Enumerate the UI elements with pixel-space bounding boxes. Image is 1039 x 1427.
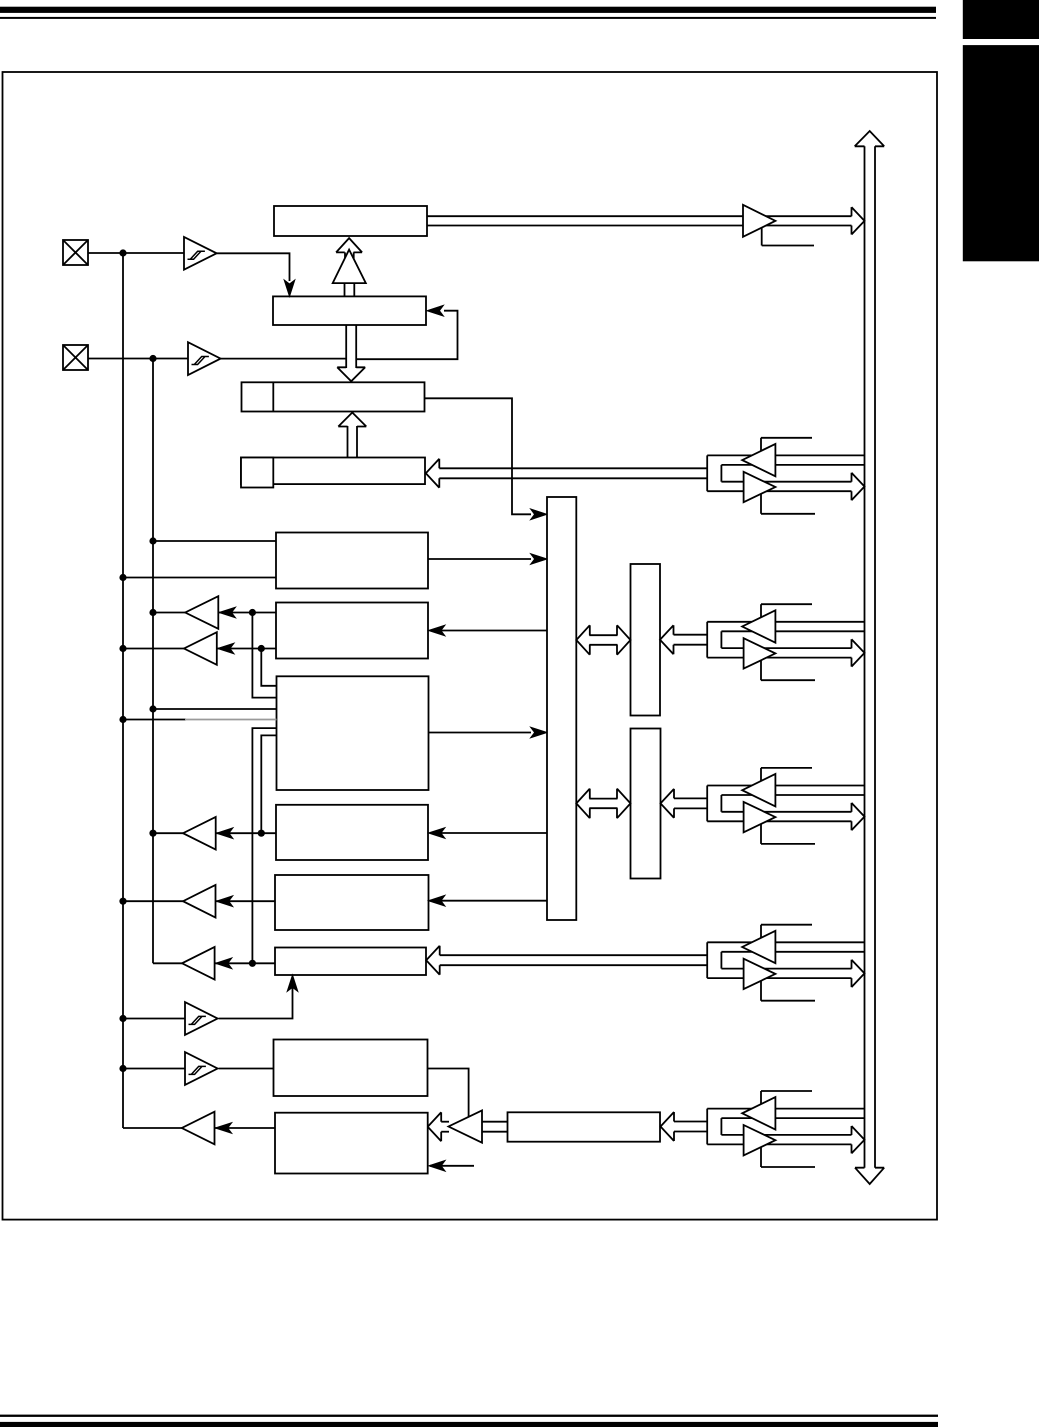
internal bus vertical lines — [864, 146, 866, 1167]
input buffer port P4 (left-pointing) — [742, 931, 775, 963]
wire schmitt F to block10 count input — [219, 977, 293, 1019]
arrow into buffer A — [219, 607, 235, 618]
stub port P3b input-buffer enable — [761, 768, 812, 783]
open arrow port P2 output into internal bus — [852, 473, 865, 500]
block11: watch timer block — [274, 1040, 428, 1097]
wire pin TI0 to schmitt trigger — [88, 252, 184, 254]
open arrow into N1 — [660, 625, 674, 654]
node TI1 junction — [149, 355, 156, 362]
page top rule (thick) — [0, 7, 936, 13]
arrow into block2 top — [284, 280, 295, 296]
node rail A / block5 — [119, 574, 126, 581]
node rail B / buffer A — [149, 609, 156, 616]
figure frame — [3, 72, 938, 1220]
stub port P4 input-buffer enable — [761, 925, 812, 940]
chapter tab lower — [963, 45, 1039, 261]
node rail A / schmitt G — [119, 1065, 126, 1072]
schmitt trigger U2 — [188, 342, 221, 375]
wire port P3b fan-out bracket — [706, 786, 708, 822]
wire block9 output to buffer D — [216, 900, 276, 902]
open arrow into block13 — [661, 1112, 675, 1141]
node rail B / buffer C — [149, 830, 156, 837]
internal bus bottom arrowhead — [855, 1168, 884, 1184]
node branch to block7 — [249, 609, 256, 616]
wire rail B to block5 — [153, 540, 276, 542]
wire selector to block8 — [430, 832, 547, 834]
wire trigger U2 to count-clock stem — [221, 358, 347, 360]
open arrow into block10 — [426, 946, 440, 975]
wire rail A to block5 — [123, 577, 276, 579]
stub P1 output-buffer enable — [762, 227, 814, 246]
open arrow into block4 — [426, 459, 440, 488]
narrow register block N1 — [631, 564, 661, 716]
open arrow block2 into block3 — [345, 325, 347, 368]
wire match-signal stem — [344, 252, 346, 283]
arrow block5 output into selector — [531, 554, 547, 565]
output buffer C (left-pointing) — [183, 817, 216, 850]
wire port P4 fan-out bracket — [706, 942, 708, 978]
wire block8 output to buffer C — [216, 832, 276, 834]
internal bus top arrowhead — [855, 131, 885, 146]
block2: 16-bit timer counter — [273, 296, 426, 325]
page bottom rule (thick) — [0, 1422, 938, 1427]
wire selector to block9 — [430, 900, 547, 902]
wire reset stub into block12 — [430, 1165, 474, 1167]
wire rail A to schmitt G — [123, 1068, 185, 1070]
wire buffer H to rail A end — [123, 1127, 182, 1129]
output buffer port P3b (right-pointing) — [744, 802, 776, 832]
wire port P3b output pair to bus — [721, 811, 851, 813]
node rail A / buffer B — [119, 645, 126, 652]
block13: prescaler (thin) — [508, 1112, 661, 1141]
block6: timer output control register — [276, 603, 428, 659]
arrow up into block10 — [287, 975, 298, 991]
wire rail A to schmitt F — [123, 1018, 185, 1020]
pin TI0 (crossed square) — [63, 240, 88, 265]
block8: compare register — [276, 805, 428, 860]
schmitt trigger U1 — [184, 237, 217, 270]
output buffer E (left-pointing) — [182, 947, 215, 980]
selector (tall narrow block) — [547, 497, 576, 920]
stub port P3 output-buffer enable — [761, 661, 815, 681]
wire rail B to block7 — [153, 708, 277, 710]
wire buffer D to rail A — [123, 900, 183, 902]
arrow feedback into block2 — [427, 305, 443, 316]
stub port P2 input-buffer enable — [761, 438, 812, 453]
wire block10 output to buffer E — [215, 962, 275, 964]
clock gate buffer (left-pointing) — [449, 1110, 483, 1142]
output buffer port P3 (right-pointing) — [744, 638, 776, 668]
open arrow port P5 output into internal bus — [852, 1126, 865, 1153]
wire port P4 internal data pair — [440, 954, 708, 956]
output buffer B (left-pointing) — [184, 632, 217, 665]
wire port P4 output pair to bus — [721, 968, 851, 970]
arrow into buffer E — [215, 958, 231, 969]
wire left rail B (from TI1) — [152, 359, 154, 964]
output buffer H (left-pointing) — [182, 1112, 215, 1145]
open double arrow selector-N1 — [589, 634, 617, 636]
arrow into buffer H — [215, 1123, 231, 1134]
block9: compare register 2 — [275, 875, 429, 930]
stub port P3 input-buffer enable — [761, 604, 812, 619]
node rail A / buffer D — [119, 898, 126, 905]
wire comparator to block2 — [344, 283, 346, 296]
stub port P5 output-buffer enable — [761, 1148, 815, 1168]
wire port P2 internal data pair — [439, 467, 707, 469]
node rail A / schmitt F — [119, 1015, 126, 1022]
arrow into buffer C — [217, 828, 233, 839]
node rail A / block7 — [119, 716, 126, 723]
open arrow port P4 output into internal bus — [852, 960, 865, 987]
wire port P5 internal data pair — [674, 1121, 707, 1123]
arrow into buffer B — [218, 643, 234, 654]
wire port P3b internal data pair — [674, 797, 707, 799]
wire port P3 internal data pair — [674, 634, 708, 636]
output buffer D (left-pointing) — [183, 885, 216, 918]
output buffer port P5 (right-pointing) — [744, 1125, 776, 1155]
open arrow match signal into block1 — [336, 238, 362, 252]
wire port P4 input pair from bus — [707, 941, 864, 943]
wire block6 output to buffer A — [218, 612, 276, 614]
wire pin TI1 to schmitt trigger — [88, 358, 188, 360]
node rail B / block7 — [149, 705, 156, 712]
wire selector to block6 — [430, 630, 547, 632]
open arrow port P3 output into internal bus — [852, 639, 865, 666]
schmitt trigger G — [185, 1052, 218, 1085]
block10: 8-bit timer register — [275, 948, 426, 976]
input buffer port P2 (left-pointing) — [742, 444, 775, 476]
wire port P3 fan-out bracket — [706, 622, 708, 658]
wire block13 pair to clock gate — [482, 1121, 508, 1123]
block5: prescaler mode register — [276, 533, 428, 589]
wire block12 output to buffer H — [215, 1127, 276, 1129]
arrow into buffer D — [216, 896, 232, 907]
block4: capture/compare register 01 (with mode sub-box) — [241, 458, 425, 485]
output buffer port P2 (right-pointing) — [744, 472, 776, 502]
wire rail A to block7 (grey part) — [185, 719, 277, 721]
wire clear feedback loop — [356, 311, 457, 360]
wire block3 output to selector — [425, 398, 532, 514]
wire port P5 input pair from bus — [707, 1108, 864, 1110]
wire block6 output to buffer B — [217, 648, 276, 650]
block7: mode/control register (large) — [277, 676, 429, 790]
wire block11 output to clock gate — [428, 1069, 469, 1120]
stub port P2 output-buffer enable — [761, 494, 815, 514]
arrow reset stub into block12 — [429, 1161, 445, 1172]
wire port P5 fan-out bracket — [706, 1109, 708, 1145]
comparator triangle — [333, 250, 366, 284]
node branch to block7 (2) — [258, 645, 265, 652]
wire buffer C to rail B — [153, 832, 183, 834]
open double arrow selector-N2 — [589, 798, 617, 800]
page bottom rule (thin) — [0, 1415, 938, 1417]
wire port P3b input pair from bus — [707, 785, 864, 787]
node on block8 wire — [258, 830, 265, 837]
output buffer P1 (right-pointing) — [743, 205, 775, 237]
wire block7 lower output to buffer-C rail — [252, 728, 276, 963]
wire buffer B to rail A — [123, 648, 184, 650]
wire block7 output to selector — [429, 732, 532, 734]
wire schmitt G to block11 — [219, 1068, 274, 1070]
arrow into block8 right edge — [429, 828, 445, 839]
arrow block3 output into selector — [531, 509, 547, 520]
open arrow port P3b output into internal bus — [852, 803, 865, 830]
input buffer port P3 (left-pointing) — [742, 610, 775, 642]
node TI0 junction — [119, 249, 126, 256]
wire branch (252) into block7 upper input — [252, 613, 276, 698]
wire port P3 output pair to bus — [721, 647, 851, 649]
open arrow clock gate into block12 — [441, 1121, 449, 1123]
page top rule (thin) — [0, 17, 936, 19]
stub port P3b output-buffer enable — [761, 824, 815, 844]
wire block5 output to selector — [428, 558, 531, 560]
pin TI1 (crossed square) — [63, 345, 88, 370]
wire port P2 output pair to bus — [721, 481, 851, 483]
block1: 16-bit capture/compare register — [274, 206, 427, 236]
arrow into block9 right edge — [429, 895, 445, 906]
block12: 8-bit counter — [275, 1113, 428, 1174]
arrow block7 output into selector — [531, 727, 547, 738]
wire register block1 output pair to bus — [427, 215, 852, 217]
open arrow into N2 — [661, 789, 675, 818]
open arrow block4 into block3 — [347, 426, 349, 458]
chapter tab upper — [963, 0, 1039, 39]
wire buffer A to rail B — [153, 612, 185, 614]
output buffer A (left-pointing) — [185, 596, 218, 629]
wire rail A to block7 (black part) — [123, 719, 186, 721]
wire port P3 input pair from bus — [707, 621, 864, 623]
input buffer port P5 (left-pointing) — [742, 1097, 775, 1129]
node rail B / block5 — [149, 537, 156, 544]
wire buffer E to rail B end — [153, 962, 182, 964]
stub port P5 input-buffer enable — [761, 1091, 812, 1106]
wire block7 lower output to node on block8 wire — [261, 735, 276, 833]
wire port P5 output pair to bus — [721, 1134, 851, 1136]
wire branch (261) into block7 upper input — [261, 649, 276, 686]
wire port P2 input pair from bus — [707, 454, 864, 456]
input buffer port P3b (left-pointing) — [742, 774, 775, 806]
narrow register block N2 — [631, 729, 661, 879]
stub port P4 output-buffer enable — [761, 981, 815, 1001]
output buffer port P4 (right-pointing) — [744, 959, 776, 989]
node rail C / block10 — [249, 960, 256, 967]
block3: capture/compare register 00 (with mode sub-box) — [242, 382, 425, 411]
wire left rail A (from TI0) — [122, 253, 124, 1128]
schmitt trigger F — [185, 1002, 218, 1035]
arrow into block6 right edge — [429, 625, 445, 636]
wire trigger U1 to block2 capture input — [217, 253, 290, 281]
open arrow P1 output into internal bus — [852, 207, 865, 234]
wire port P2 fan-out bracket — [706, 455, 708, 491]
